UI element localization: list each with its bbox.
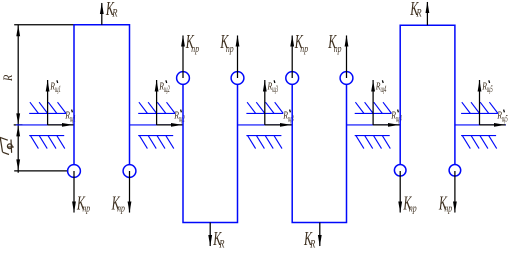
centrifugal force K_R of throw 2 (down) — [209, 223, 211, 247]
crank throw 2 (down) outline — [183, 84, 238, 222]
svg-text:R: R — [375, 81, 381, 93]
reaction force arrow R″щ4 (horizontal) — [373, 124, 399, 126]
crank throw 1: right journal joint circle — [123, 165, 136, 178]
svg-text:пр: пр — [117, 203, 125, 215]
main bearing support 4: upper seat line — [355, 112, 392, 114]
counterweight force K_pr at throw 3 right — [346, 36, 348, 79]
svg-text:щ1: щ1 — [55, 84, 61, 94]
svg-text:щ4: щ4 — [396, 114, 402, 124]
svg-text:щ3: щ3 — [288, 114, 294, 124]
crank throw 4: right joint circle — [449, 165, 461, 177]
reaction force arrow R′щ5 (vertical) — [479, 80, 481, 125]
centrifugal force K_R of throw 4 (up) — [426, 2, 428, 25]
main bearing support 2: upper seat line — [138, 112, 175, 114]
counterweight force K_pr at throw 1 right — [129, 171, 131, 213]
reaction force arrow R′щ1 (vertical) — [47, 80, 49, 125]
svg-text:пр: пр — [191, 44, 199, 56]
main bearing support 3: lower hatching — [248, 136, 282, 149]
svg-text:щ5: щ5 — [487, 84, 493, 94]
centrifugal force K_R of throw 1 (up) — [101, 3, 103, 25]
dimension extension line bottom (counterweight CG level) — [14, 170, 68, 172]
svg-text:пр: пр — [444, 203, 452, 215]
crank throw 1 (up) outline — [74, 25, 130, 165]
svg-text:R: R — [416, 7, 423, 20]
main bearing support 2: lower seat line — [138, 135, 173, 137]
shaft axis segment 5 — [455, 124, 506, 126]
reaction force arrow R″щ3 (horizontal) — [265, 124, 292, 126]
svg-text:пр: пр — [300, 44, 308, 56]
main bearing support 5: upper seat line — [461, 112, 498, 114]
counterweight force K_pr at throw 1 left — [73, 171, 75, 213]
counterweight force K_pr at throw 4 right — [454, 171, 456, 213]
svg-text:пр: пр — [334, 44, 342, 56]
svg-text:R: R — [64, 110, 70, 122]
crank throw 3: left joint circle — [286, 72, 299, 85]
counterweight force K_pr at throw 3 left — [291, 36, 293, 79]
reaction force arrow R′щ4 (vertical) — [372, 80, 374, 125]
dimension arrowheads — [16, 25, 20, 37]
counterweight force K_pr at throw 4 left — [399, 171, 401, 213]
svg-text:R: R — [218, 238, 225, 251]
reaction force arrow R′щ2 (vertical) — [156, 80, 158, 125]
svg-text:пр: пр — [82, 203, 90, 215]
centrifugal force K_R of throw 3 (down) — [319, 223, 321, 247]
main bearing support 5: lower seat line — [461, 135, 496, 137]
main bearing support 3: upper seat line — [246, 112, 283, 114]
crank throw 2: left joint circle — [177, 72, 190, 85]
main bearing support 4: lower seat line — [355, 135, 390, 137]
crank throw 4: left joint circle — [394, 165, 406, 177]
main bearing support 1: lower hatching — [30, 136, 64, 149]
reaction force arrow R″щ1 (horizontal) — [48, 124, 74, 126]
main bearing support 4: lower hatching — [356, 136, 390, 149]
reaction force arrow R′щ3 (vertical) — [264, 80, 266, 125]
svg-text:щ2: щ2 — [164, 84, 170, 94]
main bearing support 1: upper hatching — [30, 102, 66, 113]
shaft axis segment 3 — [238, 124, 293, 126]
shaft axis segment 4 — [347, 124, 401, 126]
svg-text:щ3: щ3 — [272, 84, 278, 94]
svg-text:щ4: щ4 — [381, 84, 387, 94]
main bearing support 3: upper hatching — [247, 102, 283, 113]
crank throw 4 (up) outline — [400, 25, 455, 164]
svg-text:пр: пр — [226, 44, 234, 56]
dimension label rho (counterweight radius) — [0, 137, 14, 154]
svg-text:R: R — [173, 110, 179, 122]
svg-text:R: R — [49, 81, 55, 93]
shaft axis segment 1 — [16, 124, 74, 126]
svg-text:R: R — [282, 110, 288, 122]
axis tick on dimension line — [14, 124, 23, 126]
svg-text:R: R — [481, 81, 487, 93]
dimension line R / r vertical — [17, 25, 19, 173]
svg-text:R: R — [158, 81, 164, 93]
svg-text:R: R — [390, 110, 396, 122]
reaction force arrow R″щ5 (horizontal) — [480, 124, 506, 126]
reaction force arrow R″щ2 (horizontal) — [157, 124, 183, 126]
crank throw 3: right joint circle — [340, 72, 353, 85]
crank throw 1: left journal joint circle — [68, 165, 81, 178]
dimension extension line top (crank pin level) — [14, 24, 74, 26]
svg-text:щ1: щ1 — [70, 114, 76, 124]
svg-text:пр: пр — [409, 203, 417, 215]
main bearing support 3: lower seat line — [246, 135, 281, 137]
svg-text:щ5: щ5 — [502, 114, 508, 124]
svg-text:R: R — [2, 75, 15, 82]
svg-text:R: R — [309, 238, 316, 251]
main bearing support 5: lower hatching — [462, 136, 496, 149]
counterweight force K_pr at throw 2 right — [237, 36, 239, 79]
counterweight force K_pr at throw 2 left — [182, 36, 184, 79]
crank throw 3 (down) outline — [292, 84, 346, 222]
svg-text:R: R — [267, 81, 273, 93]
main bearing support 2: upper hatching — [139, 102, 175, 113]
svg-text:R: R — [496, 110, 502, 122]
shaft axis segment 2 — [130, 124, 184, 126]
svg-text:щ2: щ2 — [179, 114, 185, 124]
crank throw 2: right joint circle — [231, 72, 244, 85]
main bearing support 4: upper hatching — [355, 102, 391, 113]
main bearing support 2: lower hatching — [139, 136, 173, 149]
main bearing support 1: lower seat line — [29, 135, 64, 137]
main bearing support 1: upper seat line — [29, 112, 66, 114]
svg-text:R: R — [111, 7, 118, 20]
main bearing support 5: upper hatching — [462, 102, 498, 113]
